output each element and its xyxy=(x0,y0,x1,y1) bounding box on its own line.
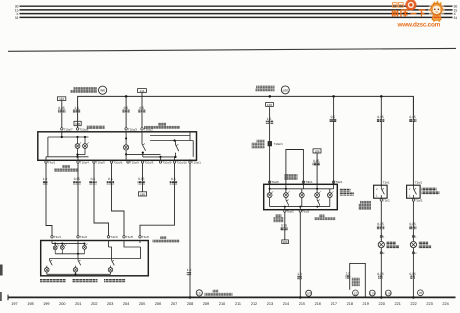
svg-text:211: 211 xyxy=(235,302,241,306)
node G foot xyxy=(189,296,192,299)
svg-text:216: 216 xyxy=(315,302,321,306)
svg-text:0.5: 0.5 xyxy=(91,177,96,181)
svg-text:209: 209 xyxy=(203,302,209,306)
svg-text:1.0: 1.0 xyxy=(43,177,48,181)
switch rear left xyxy=(47,259,53,268)
svg-text:T4a/1: T4a/1 xyxy=(48,161,56,165)
svg-text:207: 207 xyxy=(171,302,177,306)
lamp luggage 1 xyxy=(267,191,273,206)
label right of lamp2 xyxy=(419,242,432,249)
label rear right lamp xyxy=(104,279,126,282)
svg-text:204: 204 xyxy=(123,302,129,306)
svg-text:206: 206 xyxy=(155,302,161,306)
wire pin62 stub xyxy=(61,132,63,137)
wire col381 label xyxy=(377,115,384,122)
label below-right of luggage box xyxy=(315,215,336,220)
pin T6a/5 xyxy=(268,180,279,184)
svg-text:0.35: 0.35 xyxy=(377,272,383,276)
pin T10a/1 bottom xyxy=(45,161,56,165)
svg-text:1.0: 1.0 xyxy=(187,268,192,272)
svg-text:T6a/1: T6a/1 xyxy=(286,209,294,213)
wire internal h2b xyxy=(46,156,48,158)
wire main lamp to pin xyxy=(125,154,127,160)
switch luggage 2 xyxy=(317,198,320,207)
lamp rear mid main xyxy=(73,268,78,275)
wire lower internal h2 xyxy=(55,253,84,255)
wire pin140 into box xyxy=(139,241,141,244)
lamp rear right reading xyxy=(83,244,88,254)
svg-text:78: 78 xyxy=(419,291,423,295)
lamp W19 left reading lamp xyxy=(75,137,81,157)
node k3 xyxy=(83,243,85,245)
wire lug bottom internal xyxy=(270,206,330,208)
pin below switch2 xyxy=(412,198,423,202)
wire E pin142 to connector xyxy=(142,163,144,192)
front interior light unit box xyxy=(38,132,197,161)
node k2 xyxy=(61,243,63,245)
mascot ears xyxy=(430,8,433,11)
switch E15 interior xyxy=(142,132,146,157)
pin below switch1 xyxy=(380,198,390,202)
node j7 xyxy=(142,152,144,154)
ground point 12 xyxy=(353,290,359,296)
ground point 178 xyxy=(306,290,312,296)
pin T4d/3 top xyxy=(139,235,150,239)
svg-text:139: 139 xyxy=(267,103,272,107)
watermark dzsc xyxy=(392,0,446,28)
pin below lamp2 xyxy=(412,252,417,255)
wire internal v-left xyxy=(47,137,49,157)
pin T10a/8 xyxy=(76,127,88,131)
ground point 78 xyxy=(418,290,424,296)
svg-text:12: 12 xyxy=(354,291,358,295)
switch rear right xyxy=(111,259,115,268)
label front interior light xyxy=(87,125,105,128)
node j8 xyxy=(159,156,161,158)
wire pin108 into box xyxy=(108,241,110,248)
wire F pin174 jog left to lower box xyxy=(140,163,175,236)
svg-text:T18a/4: T18a/4 xyxy=(274,142,283,146)
wire lug stub c1 xyxy=(269,184,271,192)
wire col270 label xyxy=(266,117,273,124)
wire main horizontal xyxy=(78,96,414,128)
node k4 xyxy=(77,253,79,255)
svg-text:186: 186 xyxy=(314,149,319,153)
wire lug top internal xyxy=(270,188,334,190)
bus X xyxy=(20,13,453,15)
watermark char yi xyxy=(411,13,417,15)
svg-text:T10a/4: T10a/4 xyxy=(80,161,89,165)
svg-text:210: 210 xyxy=(219,302,225,306)
svg-text:1.0: 1.0 xyxy=(297,272,302,276)
wire G pin190 to ground xyxy=(189,163,191,297)
wire col415 label xyxy=(409,115,416,122)
label rear left lamp xyxy=(40,279,66,282)
watermark char ku xyxy=(401,10,408,17)
svg-text:T2r/1: T2r/1 xyxy=(383,181,390,185)
bus 31 xyxy=(20,16,453,18)
pin T3b/1 xyxy=(302,180,313,184)
wire A pin46 to lower box xyxy=(46,163,52,236)
pin T4d/1 top xyxy=(107,235,118,239)
label input top right xyxy=(144,123,180,129)
svg-text:T4c/1: T4c/1 xyxy=(54,235,62,239)
wire internal h4 xyxy=(143,156,175,158)
svg-text:1.5: 1.5 xyxy=(74,106,79,110)
wire pin52 stub xyxy=(51,241,53,244)
lamp W1 main interior xyxy=(124,132,129,155)
svg-text:124: 124 xyxy=(59,97,64,101)
wire label foot col415 xyxy=(409,272,415,279)
wire col77 label xyxy=(73,106,81,113)
label right of lamp1 xyxy=(387,242,400,249)
svg-text:31: 31 xyxy=(454,16,458,20)
svg-text:T4c/5: T4c/5 xyxy=(126,235,134,239)
rear interior light unit box xyxy=(41,241,149,276)
svg-text:1.0: 1.0 xyxy=(346,271,351,275)
node m3 xyxy=(316,188,318,190)
svg-text:131: 131 xyxy=(197,291,202,295)
svg-text:T2s/2: T2s/2 xyxy=(415,198,423,202)
wire col317 xyxy=(316,153,318,184)
wire lower internal h3 xyxy=(109,247,112,259)
splice connector on col270 xyxy=(268,141,283,146)
svg-text:T4c/6: T4c/6 xyxy=(142,235,150,239)
mascot head xyxy=(431,4,442,15)
bus 15 xyxy=(20,9,453,11)
wire jumper U xyxy=(286,150,304,185)
pin T10a/2 xyxy=(141,127,153,131)
svg-text:208: 208 xyxy=(187,302,193,306)
node m4 xyxy=(284,206,286,208)
node col300 foot xyxy=(299,296,302,299)
wire to pin78 xyxy=(77,157,79,161)
svg-text:186: 186 xyxy=(283,240,288,244)
label left of vanity switch 1 xyxy=(359,201,372,210)
svg-text:T4c/2: T4c/2 xyxy=(80,235,88,239)
watermark char wei xyxy=(392,10,399,17)
wire lug stub c5 xyxy=(333,184,335,189)
switch rear mid xyxy=(76,259,81,268)
svg-text:0.35: 0.35 xyxy=(313,159,319,163)
pin T6a/2 bottom xyxy=(299,209,310,213)
node W label xyxy=(74,87,98,90)
mascot body xyxy=(432,14,441,20)
svg-text:179: 179 xyxy=(370,291,375,295)
pin T10a/5 bottom xyxy=(93,161,105,165)
svg-text:201: 201 xyxy=(75,302,81,306)
label input below pins xyxy=(54,165,78,172)
wire lug stub c3b xyxy=(301,189,303,193)
pin T10a/9 bottom xyxy=(127,161,139,165)
pin below lamp1 xyxy=(380,252,385,255)
lamp vanity 2 xyxy=(410,242,416,248)
mascot glow xyxy=(428,2,445,19)
watermark small chars xyxy=(393,3,404,8)
connector 186c xyxy=(282,240,289,244)
lamp luggage 2 xyxy=(284,191,290,197)
current track line xyxy=(8,296,456,298)
lamp luggage 4 xyxy=(315,191,321,197)
mascot feet xyxy=(433,20,435,22)
wire pin124 into box xyxy=(124,241,141,248)
label above luggage box xyxy=(285,174,298,180)
wire col270 xyxy=(269,107,271,184)
node B junction xyxy=(269,95,272,98)
node col381 foot xyxy=(380,296,383,299)
node B label xyxy=(256,86,275,89)
svg-text:0.35: 0.35 xyxy=(377,222,383,226)
pin T10a/11 bottom xyxy=(189,161,201,165)
pin T10a/10 bottom xyxy=(141,161,153,165)
node j3 xyxy=(84,136,86,138)
pin T10a/4 bottom xyxy=(77,161,89,165)
connector 186 xyxy=(138,192,146,197)
svg-text:218: 218 xyxy=(347,302,353,306)
ground 131 label xyxy=(205,290,233,296)
current track tick left xyxy=(7,295,9,301)
node A junction xyxy=(125,95,128,98)
mascot mouth xyxy=(435,11,438,14)
svg-text:141: 141 xyxy=(139,89,144,93)
bracket annotation xyxy=(350,263,366,297)
svg-text:T6a/2: T6a/2 xyxy=(302,209,310,213)
wire pin46 stub xyxy=(45,157,47,161)
label right of vanity switch 2 xyxy=(422,188,440,195)
pin T10a/3 xyxy=(125,127,137,131)
node k1 xyxy=(54,243,56,245)
svg-text:0.35: 0.35 xyxy=(281,224,287,228)
svg-text:B30: B30 xyxy=(283,88,289,92)
watermark char xia xyxy=(419,10,426,17)
wire switch2 to lamp2 xyxy=(412,201,414,241)
wire C pin94 to lower box xyxy=(94,163,109,236)
svg-text:224: 224 xyxy=(442,302,448,306)
pin T4c/2 top xyxy=(77,235,88,239)
wire switch1 to lamp1 xyxy=(380,201,382,241)
svg-text:0.5: 0.5 xyxy=(171,177,176,181)
node j11 xyxy=(189,159,191,161)
pin T10a/12 bottom xyxy=(173,161,187,165)
connector 139 xyxy=(266,103,274,107)
scan mark left edge xyxy=(0,265,3,276)
svg-text:222: 222 xyxy=(410,302,416,306)
label input right of pins xyxy=(153,236,180,242)
wire C label xyxy=(89,177,96,184)
svg-text:200: 200 xyxy=(59,302,65,306)
label rear mid lamp xyxy=(72,279,98,282)
wire label mid col381 xyxy=(377,222,384,229)
wire pin190 stub2 xyxy=(189,131,191,136)
wire internal h6 xyxy=(150,135,190,137)
lamp rear left reading xyxy=(53,244,59,254)
connector E24 xyxy=(57,97,65,101)
wire label foot col381 xyxy=(377,272,383,279)
svg-text:1.5: 1.5 xyxy=(267,117,272,121)
lamp rear left main xyxy=(45,268,50,275)
node m1 xyxy=(269,188,271,190)
svg-text:T2r/2: T2r/2 xyxy=(383,198,390,202)
svg-text:www.dzsc.com: www.dzsc.com xyxy=(397,21,441,28)
label input left of splice xyxy=(252,140,265,149)
svg-text:0.5: 0.5 xyxy=(124,106,129,110)
wire pin190 stub xyxy=(189,136,191,141)
node D junction xyxy=(380,95,383,98)
svg-text:214: 214 xyxy=(283,302,289,306)
svg-text:T10a/8: T10a/8 xyxy=(79,127,88,131)
wire lamp1 to ground xyxy=(380,248,382,298)
pin T3a/1 xyxy=(332,180,343,184)
wire col142 xyxy=(141,96,143,128)
svg-text:138: 138 xyxy=(75,122,80,126)
connector 186b xyxy=(313,149,321,154)
mascot eyes xyxy=(434,8,436,10)
wire lower internal h4 xyxy=(47,273,111,275)
lamp W20 right reading lamp xyxy=(78,137,89,155)
wire lamp2 to ground xyxy=(412,248,414,298)
svg-text:217: 217 xyxy=(331,302,337,306)
svg-text:0.5: 0.5 xyxy=(108,177,113,181)
ground point 179 xyxy=(369,290,375,296)
node j4 xyxy=(76,154,78,156)
wire col126 label xyxy=(122,106,130,113)
wire F label xyxy=(170,177,177,184)
wire col300 to ground xyxy=(299,212,301,297)
svg-text:T10a/7: T10a/7 xyxy=(64,127,73,131)
vanity switch 2 box xyxy=(407,185,421,198)
node j5 xyxy=(76,156,78,158)
svg-text:212: 212 xyxy=(251,302,257,306)
svg-text:197: 197 xyxy=(11,302,17,306)
wire lug pin stub2 xyxy=(284,207,286,210)
label below-left of luggage box xyxy=(274,215,284,223)
wire lug pin stub3 xyxy=(299,207,301,210)
wire col62 xyxy=(61,101,63,129)
mascot belt xyxy=(433,17,439,19)
lamp rear mid reading xyxy=(60,244,66,254)
svg-text:221: 221 xyxy=(395,302,401,306)
node m2 xyxy=(285,188,287,190)
svg-text:0.5: 0.5 xyxy=(331,115,336,119)
svg-text:0.35: 0.35 xyxy=(58,106,64,110)
svg-text:0.5: 0.5 xyxy=(139,106,144,110)
label luggage right xyxy=(340,189,355,196)
svg-text:T10a/5: T10a/5 xyxy=(96,161,105,165)
lamp luggage 3 xyxy=(299,193,304,207)
wire B pin78 to lower box xyxy=(77,163,79,236)
svg-text:186: 186 xyxy=(140,192,145,196)
wire label mid col415 xyxy=(409,222,416,229)
svg-text:178: 178 xyxy=(306,292,311,296)
svg-text:223: 223 xyxy=(426,302,432,306)
node B circle xyxy=(281,86,289,94)
bus 30 xyxy=(20,5,453,7)
svg-text:219: 219 xyxy=(363,302,369,306)
wire G label xyxy=(187,268,192,275)
svg-text:0.35: 0.35 xyxy=(377,115,383,119)
wire lower internal right v xyxy=(50,247,141,259)
wire pin174 stub xyxy=(174,157,176,160)
svg-text:T10a/5: T10a/5 xyxy=(144,161,153,165)
wire pin78 into box xyxy=(77,241,79,259)
svg-text:31: 31 xyxy=(15,16,19,20)
wire D pin111 to lower box xyxy=(112,163,125,236)
wire col62 label xyxy=(58,106,66,113)
connector T10k xyxy=(74,121,81,126)
node W label line2 xyxy=(71,90,98,93)
pin T10a/8 bottom xyxy=(159,161,171,165)
svg-text:198: 198 xyxy=(27,302,33,306)
wire lower internal h1 xyxy=(52,243,85,245)
svg-text:T10a/9: T10a/9 xyxy=(162,161,171,165)
node m6 xyxy=(316,206,318,208)
wire D label xyxy=(107,177,114,184)
lamp luggage 5 xyxy=(327,191,333,206)
svg-text:205: 205 xyxy=(139,302,145,306)
svg-text:T10a/10: T10a/10 xyxy=(176,161,187,165)
wire col285 label xyxy=(280,224,287,231)
svg-text:0.35: 0.35 xyxy=(409,272,415,276)
node j10 xyxy=(173,139,175,141)
svg-text:T10a/1: T10a/1 xyxy=(192,161,201,165)
svg-text:T4c/3: T4c/3 xyxy=(110,235,118,239)
svg-text:215: 215 xyxy=(299,302,305,306)
svg-text:0.35: 0.35 xyxy=(74,177,80,181)
connector 141 xyxy=(138,89,147,97)
lamp rear right main xyxy=(108,268,113,275)
wire col381 xyxy=(380,96,382,185)
pin T6a/1 bottom xyxy=(284,209,295,213)
wire pin160 stub xyxy=(160,157,162,160)
wire internal v-right xyxy=(192,141,194,157)
pin T10a/7 xyxy=(61,127,73,131)
node j2 xyxy=(76,136,78,138)
lamp vanity 1 xyxy=(378,242,384,248)
watermark logo ring xyxy=(405,0,416,11)
wire col126 xyxy=(125,96,127,128)
wire A label xyxy=(43,177,48,184)
svg-text:0.35: 0.35 xyxy=(138,177,144,181)
svg-text:T2s/1: T2s/1 xyxy=(415,181,423,185)
separator line xyxy=(8,48,456,51)
node C junction xyxy=(332,95,335,98)
pin above lamp1 xyxy=(380,235,385,238)
wire col285 to connector xyxy=(284,212,286,240)
wire lug stub c2 xyxy=(285,184,287,192)
wire lug stub c5b xyxy=(329,189,331,193)
node W circle xyxy=(99,86,107,94)
mascot hair xyxy=(432,0,442,5)
pin T4d/2 top xyxy=(123,235,134,239)
bracket text xyxy=(352,278,360,286)
wire col415 xyxy=(412,96,414,185)
wire col334 xyxy=(333,96,335,184)
switch contact door xyxy=(176,141,179,157)
wire E label xyxy=(138,177,145,184)
svg-text:213: 213 xyxy=(267,302,273,306)
wire col334 label xyxy=(329,115,336,122)
switch luggage 1 xyxy=(286,198,289,207)
node col415 foot xyxy=(412,296,415,299)
pin T10a/6 bottom xyxy=(110,161,122,165)
wire internal h5 xyxy=(150,140,193,142)
wire internal h2 xyxy=(48,156,89,158)
bracket wire label xyxy=(346,271,351,278)
node j1 xyxy=(61,136,63,138)
svg-text:0.35: 0.35 xyxy=(409,222,415,226)
pin above lamp2 xyxy=(412,235,417,238)
wire col300 label xyxy=(297,272,302,279)
